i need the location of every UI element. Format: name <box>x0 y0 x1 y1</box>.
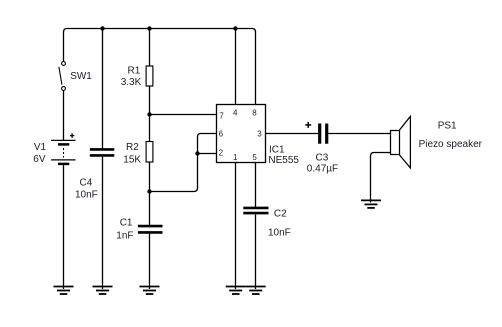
svg-text:3: 3 <box>257 129 262 138</box>
ground C1 <box>140 287 160 295</box>
svg-text:15K: 15K <box>123 155 141 166</box>
node junction dot R2/C1 <box>147 189 151 193</box>
label SW1 <box>70 71 92 82</box>
label C3 value 0.47uF <box>307 164 338 175</box>
svg-text:C3: C3 <box>316 153 329 164</box>
label R1 value 3.3K <box>121 77 142 88</box>
svg-text:PS1: PS1 <box>438 121 457 132</box>
svg-text:V1: V1 <box>34 142 47 153</box>
pin number 7 <box>219 111 224 120</box>
label V1 <box>34 142 47 153</box>
pin number 6 <box>219 129 224 138</box>
wire battery to ground <box>63 165 65 289</box>
label C4 value 10nF <box>75 190 98 201</box>
speaker PS1 body <box>391 116 411 168</box>
label C1 value 1nF <box>116 230 133 241</box>
svg-text:IC1: IC1 <box>269 145 285 156</box>
wire speaker to ground <box>371 153 391 203</box>
svg-text:Piezo speaker: Piezo speaker <box>419 139 483 150</box>
svg-text:R1: R1 <box>128 66 141 77</box>
wire C4 to ground <box>102 157 104 289</box>
battery plus sign <box>70 133 74 137</box>
ground pin1 <box>226 287 246 295</box>
wire pin 2 <box>198 153 217 155</box>
svg-text:7: 7 <box>219 111 224 120</box>
node junction dot rail/C4 <box>100 26 104 30</box>
wire rail to switch <box>63 32 65 62</box>
label C1 <box>120 217 133 228</box>
node junction dot rail/pin4 <box>233 26 237 30</box>
svg-text:4: 4 <box>233 109 238 118</box>
wire pin 8 to rail <box>255 32 257 105</box>
ground speaker <box>361 200 381 208</box>
resistor R2 <box>146 142 153 163</box>
pin number 5 <box>252 153 257 162</box>
label 6V <box>33 154 46 165</box>
label C2 <box>274 208 287 219</box>
wire junction to pins 2 and 6 <box>150 134 217 192</box>
label PS1 <box>438 121 457 132</box>
timer IC1 NE555 body <box>217 105 266 163</box>
svg-text:8: 8 <box>252 109 257 118</box>
wire switch to battery <box>63 90 65 140</box>
ground C4 <box>93 287 113 295</box>
node junction dot rail/R1 <box>147 26 151 30</box>
wire C1 to ground <box>149 234 151 289</box>
label R2 value 15K <box>123 155 141 166</box>
pin number 1 <box>233 153 238 162</box>
svg-text:1: 1 <box>233 153 238 162</box>
label NE555 <box>268 155 299 166</box>
pin number 4 <box>233 109 238 118</box>
wire C2 to ground <box>255 214 257 289</box>
svg-text:C1: C1 <box>120 217 133 228</box>
wire R1 to R2 <box>149 86 151 142</box>
capacitor C2 <box>243 208 268 213</box>
resistor R1 <box>146 66 153 86</box>
svg-text:10nF: 10nF <box>268 227 291 238</box>
svg-text:SW1: SW1 <box>70 71 92 82</box>
ground battery <box>54 287 74 295</box>
wire pin 3 to C3 <box>266 133 319 135</box>
pin number 2 <box>219 149 224 158</box>
battery V1 <box>51 140 75 164</box>
wire C3 to speaker <box>328 133 390 135</box>
node junction dot pin2 <box>195 151 199 155</box>
label R1 <box>128 66 141 77</box>
capacitor C4 <box>90 149 115 155</box>
svg-text:3.3K: 3.3K <box>121 77 142 88</box>
svg-text:5: 5 <box>252 153 257 162</box>
wire pin 5 to C2 <box>255 163 257 207</box>
svg-text:6: 6 <box>219 129 224 138</box>
svg-text:R2: R2 <box>126 142 139 153</box>
wire top power rail <box>64 29 256 33</box>
wire pin 1 to ground <box>235 163 237 290</box>
label C3 <box>316 153 329 164</box>
svg-text:0.47µF: 0.47µF <box>307 164 338 175</box>
wire rail to C4 <box>102 29 104 149</box>
ground C2 <box>246 287 266 295</box>
svg-text:2: 2 <box>219 149 224 158</box>
svg-text:6V: 6V <box>33 154 46 165</box>
wire rail to R1 <box>149 29 151 67</box>
label R2 <box>126 142 139 153</box>
svg-text:10nF: 10nF <box>75 190 98 201</box>
svg-text:1nF: 1nF <box>116 230 133 241</box>
label C4 <box>80 177 93 188</box>
label IC1 <box>269 145 285 156</box>
switch SW1 <box>59 62 66 91</box>
svg-text:NE555: NE555 <box>268 155 299 166</box>
capacitor C3 <box>320 124 327 144</box>
C3 plus sign <box>305 122 311 128</box>
wire R2 to C1 <box>149 162 151 226</box>
node junction dot pin7 <box>147 112 151 116</box>
label C2 value 10nF <box>268 227 291 238</box>
label Piezo speaker <box>419 139 483 150</box>
pin number 3 <box>257 129 262 138</box>
wire pin 7 <box>150 114 217 116</box>
pin number 8 <box>252 109 257 118</box>
wire pin 4 to rail <box>235 29 237 105</box>
capacitor C1 <box>138 226 163 232</box>
svg-text:C2: C2 <box>274 208 287 219</box>
svg-text:C4: C4 <box>80 177 93 188</box>
